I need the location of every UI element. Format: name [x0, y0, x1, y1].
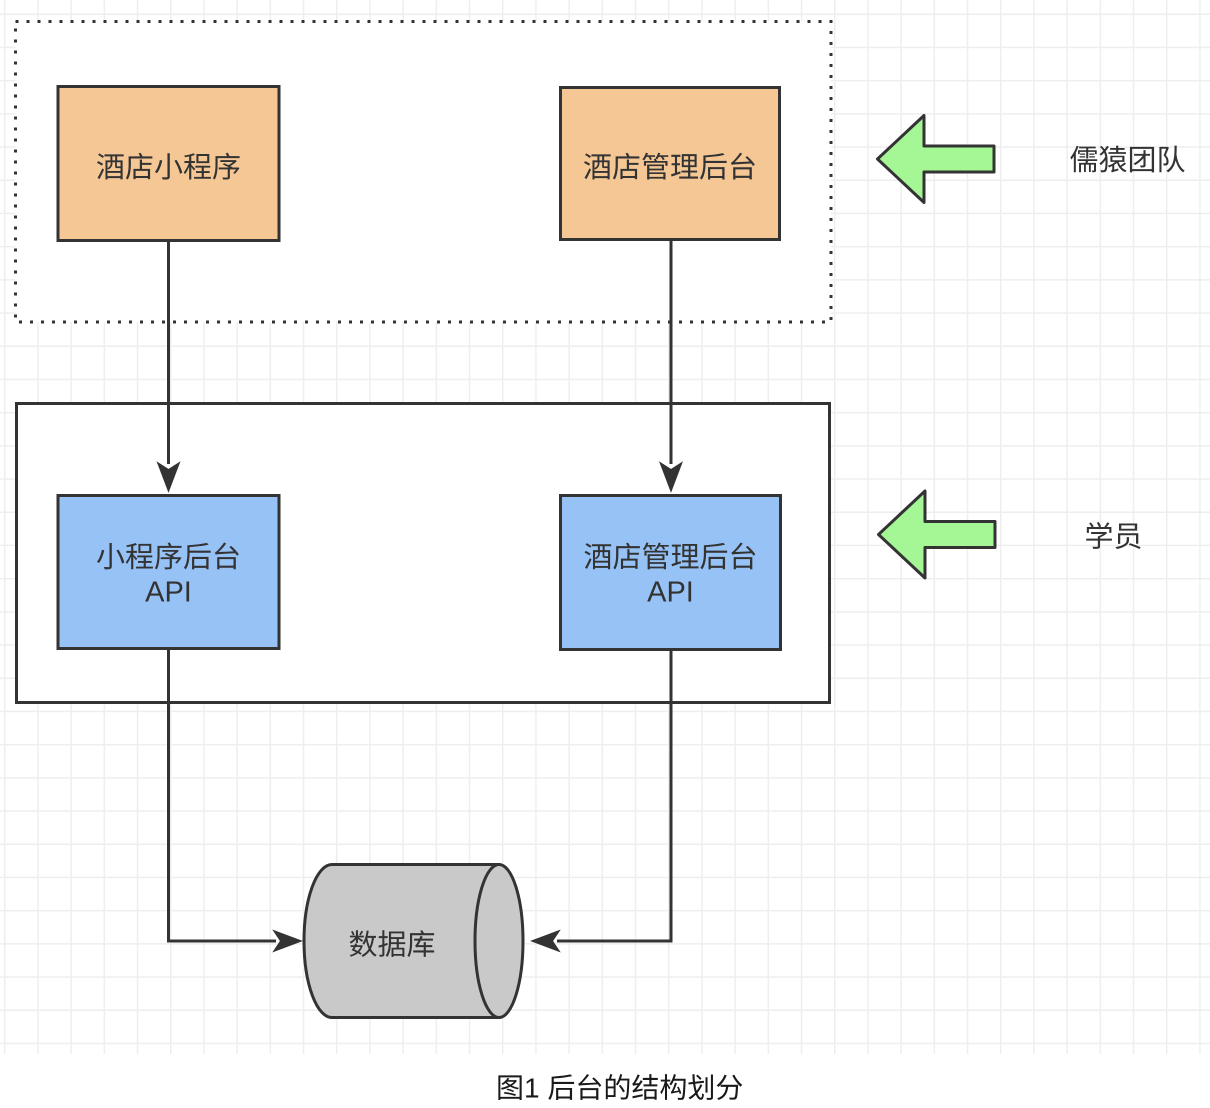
svg-text:1: 1 — [524, 1073, 540, 1104]
svg-text:API: API — [647, 577, 694, 609]
svg-text:API: API — [145, 577, 192, 609]
